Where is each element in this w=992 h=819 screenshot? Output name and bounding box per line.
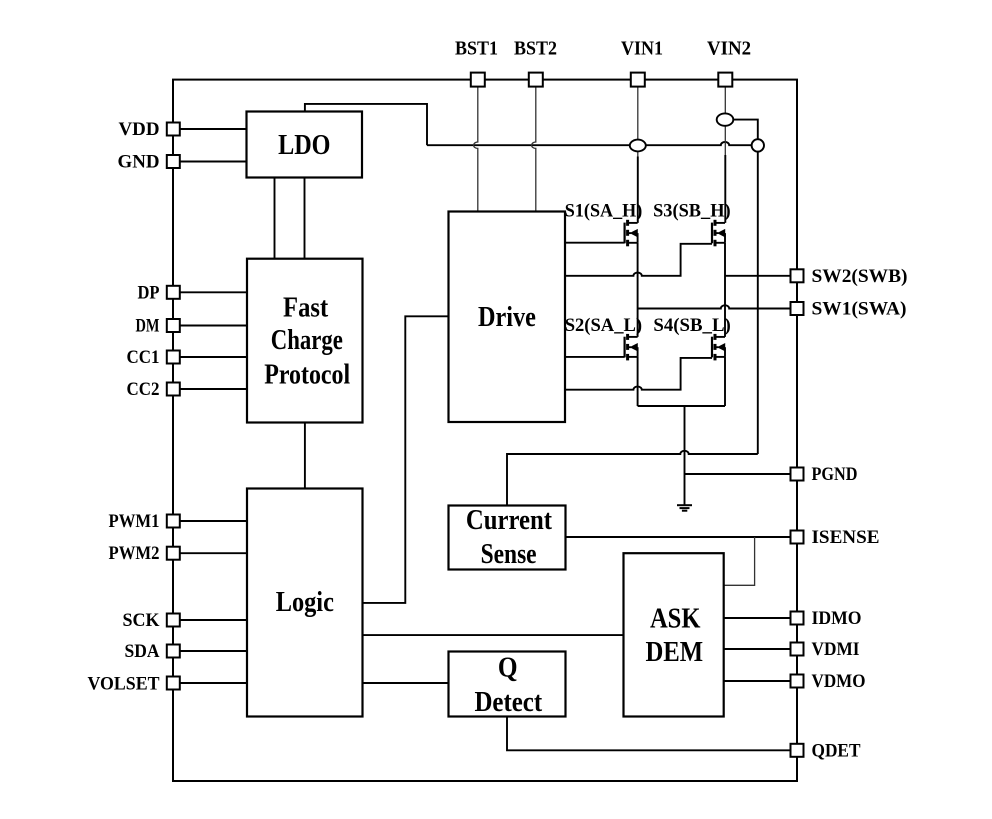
block Logic xyxy=(247,489,363,717)
svg-text:VDD: VDD xyxy=(119,119,160,140)
wire ASK DEM to VDMI xyxy=(724,648,791,650)
svg-text:VIN1: VIN1 xyxy=(621,39,663,60)
pin SW1(SWA) xyxy=(791,302,804,315)
svg-text:SCK: SCK xyxy=(123,610,160,631)
svg-text:VDMI: VDMI xyxy=(812,639,860,660)
svg-text:ASK: ASK xyxy=(650,604,701,635)
svg-text:Drive: Drive xyxy=(478,302,536,333)
pin VOLSET xyxy=(167,677,180,690)
wire right column to Current Sense with hop over ground column xyxy=(507,451,758,506)
wire Drive to S3 gate with hop over S1 column xyxy=(565,244,712,276)
wire VIN2 below ellipse xyxy=(724,126,726,156)
block Drive xyxy=(449,212,566,423)
wire CC2 to Fast Charge Protocol xyxy=(178,388,247,390)
wire VIN2 column upper xyxy=(724,87,726,114)
node VIN1 ellipse junction xyxy=(630,140,646,152)
transistor S1 xyxy=(625,220,638,247)
svg-text:Sense: Sense xyxy=(481,539,537,570)
svg-text:S4(SB_L): S4(SB_L) xyxy=(653,316,730,336)
wire VIN1 column upper xyxy=(637,87,639,140)
wire VIN1 to S1 drain xyxy=(637,151,639,157)
svg-text:CC1: CC1 xyxy=(127,347,160,368)
wire PWM2 to Logic xyxy=(178,552,247,554)
svg-text:Q: Q xyxy=(498,652,518,683)
pin BST2 xyxy=(529,73,543,87)
svg-text:S2(SA_L): S2(SA_L) xyxy=(565,316,642,336)
svg-text:LDO: LDO xyxy=(278,130,330,161)
wire Logic to Drive xyxy=(363,316,449,603)
svg-text:SW2(SWB): SW2(SWB) xyxy=(812,266,908,287)
node supply rail circle junction xyxy=(752,139,764,151)
svg-text:S3(SB_H): S3(SB_H) xyxy=(653,202,731,222)
wire Fast Charge Protocol to Logic xyxy=(304,423,306,489)
transistor S3 xyxy=(712,220,725,247)
pin VDMI xyxy=(791,643,804,656)
wire S2 source down to common node xyxy=(637,357,639,406)
wire VOLSET to Logic xyxy=(178,682,247,684)
wire LDO to Fast Charge Protocol right link xyxy=(304,178,306,259)
wire Drive to S4 gate with hop over S2 column xyxy=(565,358,712,390)
wire GND to LDO xyxy=(178,161,247,163)
pin DP xyxy=(167,286,180,299)
svg-text:SDA: SDA xyxy=(125,641,160,662)
pin DM xyxy=(167,319,180,332)
block Q Detect xyxy=(449,652,566,718)
wire LDO top route to supply rail xyxy=(305,104,427,145)
pin IDMO xyxy=(791,612,804,625)
svg-text:Fast: Fast xyxy=(283,292,329,323)
pin VIN2 xyxy=(718,73,732,87)
wire ASK DEM to IDMO xyxy=(724,617,791,619)
svg-text:BST2: BST2 xyxy=(514,39,557,60)
pin VDMO xyxy=(791,675,804,688)
wire Logic to Q Detect xyxy=(363,682,449,684)
wire SW1 row with hop over S3 column xyxy=(638,305,791,308)
svg-text:GND: GND xyxy=(118,152,160,173)
pin CC2 xyxy=(167,383,180,396)
wire Current Sense to ISENSE xyxy=(566,536,792,538)
wire SCK to Logic xyxy=(178,619,247,621)
pin GND xyxy=(167,155,180,168)
wire DM to Fast Charge Protocol xyxy=(178,325,247,327)
svg-text:VOLSET: VOLSET xyxy=(88,674,160,695)
block Current Sense xyxy=(449,505,566,570)
wire S1 source to S2 drain column xyxy=(637,243,639,337)
wire supply rail with hop over VIN2 column xyxy=(427,142,752,145)
wire Drive to S1 gate xyxy=(565,242,625,244)
transistor S4 xyxy=(712,334,725,361)
wire Logic to ASK DEM xyxy=(363,634,624,636)
wire SW2 row xyxy=(725,275,791,277)
svg-text:Logic: Logic xyxy=(276,587,334,618)
wire CC1 to Fast Charge Protocol xyxy=(178,356,247,358)
svg-text:Current: Current xyxy=(466,505,553,536)
pin BST1 xyxy=(471,73,485,87)
wire S4 source down to common node xyxy=(724,357,726,406)
pin VIN1 xyxy=(631,73,645,87)
wire ground column xyxy=(684,406,686,505)
wire DP to Fast Charge Protocol xyxy=(178,291,247,293)
ground xyxy=(677,505,692,511)
pin CC1 xyxy=(167,351,180,364)
svg-text:BST1: BST1 xyxy=(455,39,498,60)
pin QDET xyxy=(791,744,804,757)
svg-text:QDET: QDET xyxy=(812,740,861,761)
node VIN2 ellipse junction xyxy=(717,113,734,125)
pin PWM2 xyxy=(167,547,180,560)
wire VIN2 to S3 drain xyxy=(724,155,726,223)
wire LDO to Fast Charge Protocol left link xyxy=(274,178,276,259)
svg-text:Protocol: Protocol xyxy=(264,359,350,390)
svg-text:CC2: CC2 xyxy=(127,379,160,400)
wire ASK DEM to VDMO xyxy=(724,680,791,682)
wire ISENSE tap to ASK DEM xyxy=(724,537,755,585)
svg-text:S1(SA_H): S1(SA_H) xyxy=(565,202,643,222)
svg-text:DM: DM xyxy=(136,316,160,337)
svg-text:PWM2: PWM2 xyxy=(109,543,160,564)
svg-text:DP: DP xyxy=(138,282,160,303)
wire VDD to LDO xyxy=(178,128,247,130)
wire SDA to Logic xyxy=(178,650,247,652)
pin PGND xyxy=(791,468,804,481)
svg-text:DEM: DEM xyxy=(645,637,703,668)
wire PGND row xyxy=(685,473,792,475)
wire PWM1 to Logic xyxy=(178,520,247,522)
svg-text:IDMO: IDMO xyxy=(812,608,862,629)
wire VIN2 ellipse tap to right column xyxy=(733,120,758,454)
transistor S2 xyxy=(625,334,638,361)
block LDO xyxy=(247,112,363,178)
wire BST2 column with hop over supply rail xyxy=(532,87,536,212)
pin VDD xyxy=(167,123,180,136)
wire BST1 column with hop over supply rail xyxy=(474,87,478,212)
svg-text:PGND: PGND xyxy=(812,464,858,485)
svg-text:SW1(SWA): SW1(SWA) xyxy=(812,299,907,320)
svg-text:VDMO: VDMO xyxy=(812,671,866,692)
wire S3 source to S4 drain column xyxy=(724,243,726,337)
wire Drive to S2 gate xyxy=(565,356,625,358)
pin ISENSE xyxy=(791,531,804,544)
chip boundary xyxy=(173,80,797,781)
pin PWM1 xyxy=(167,515,180,528)
block ASK DEM xyxy=(624,553,724,716)
svg-text:ISENSE: ISENSE xyxy=(812,527,880,548)
wire common source connector xyxy=(638,405,725,407)
svg-text:PWM1: PWM1 xyxy=(109,511,160,532)
pin SW2(SWB) xyxy=(791,269,804,282)
block Fast Charge Protocol U2 xyxy=(247,259,363,423)
pin SDA xyxy=(167,645,180,658)
pin SCK xyxy=(167,614,180,627)
svg-text:VIN2: VIN2 xyxy=(707,39,751,60)
svg-text:Detect: Detect xyxy=(474,687,542,718)
wire Q Detect to QDET xyxy=(507,717,791,751)
svg-text:Charge: Charge xyxy=(271,325,343,356)
